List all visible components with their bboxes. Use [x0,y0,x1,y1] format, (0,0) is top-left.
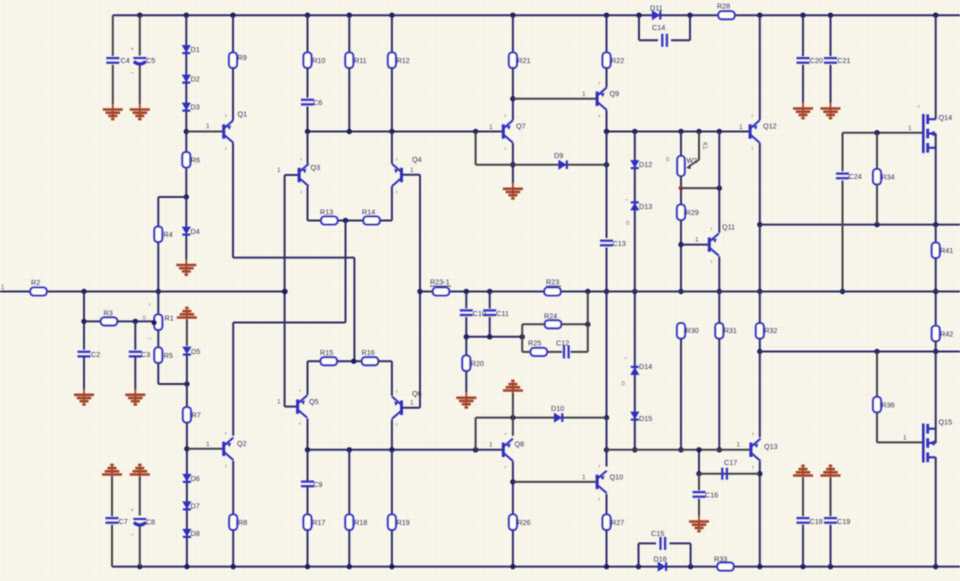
svg-text:R19: R19 [397,518,410,527]
svg-text:D15: D15 [639,414,652,423]
svg-text:R2: R2 [31,278,40,287]
svg-text:Q14: Q14 [939,113,953,122]
svg-text:C18: C18 [810,517,823,526]
svg-text:Q10: Q10 [610,473,624,482]
svg-text:D8: D8 [191,529,200,538]
svg-text:Q13: Q13 [764,442,778,451]
svg-text:R24: R24 [544,312,557,321]
svg-text:R18: R18 [354,518,367,527]
svg-text:R29: R29 [686,208,699,217]
svg-text:Q11: Q11 [722,223,735,232]
svg-text:R1: R1 [165,314,174,323]
svg-text:R14: R14 [362,208,375,217]
svg-text:D12: D12 [639,160,652,169]
svg-text:R32: R32 [764,326,777,335]
svg-text:−: − [148,336,152,343]
svg-text:+: + [131,47,135,53]
svg-text:1: 1 [695,237,699,244]
svg-text:1: 1 [206,441,210,448]
svg-text:Q3: Q3 [311,163,321,172]
svg-text:C15: C15 [651,529,664,538]
svg-text:C9: C9 [313,480,322,489]
svg-text:D16: D16 [654,555,667,564]
svg-text:1: 1 [489,442,493,449]
svg-text:Q5: Q5 [309,397,319,406]
svg-text:1: 1 [206,123,210,130]
svg-text:1: 1 [277,167,281,174]
svg-text:Q12: Q12 [763,122,777,131]
svg-text:R26: R26 [517,518,530,527]
svg-text:C8: C8 [146,518,155,527]
svg-text:R10: R10 [312,56,325,65]
svg-text:C5: C5 [146,56,155,65]
svg-text:R13: R13 [320,208,333,217]
svg-text:C19: C19 [837,517,850,526]
svg-text:K1: K1 [701,142,707,150]
svg-text:−: − [624,356,628,363]
svg-text:C13: C13 [613,239,626,248]
svg-text:D5: D5 [191,347,200,356]
svg-text:D10: D10 [551,404,564,413]
svg-text:1: 1 [908,125,912,132]
svg-text:C2: C2 [91,350,100,359]
svg-text:−: − [131,532,135,539]
svg-text:Q8: Q8 [515,440,525,449]
svg-text:C11: C11 [496,309,509,318]
svg-text:R31: R31 [724,326,737,335]
svg-text:R9: R9 [238,53,247,62]
svg-text:1: 1 [410,400,414,407]
svg-text:R15: R15 [320,348,333,357]
svg-text:R30: R30 [686,326,699,335]
svg-text:C7: C7 [119,517,128,526]
svg-text:R17: R17 [312,518,325,527]
svg-text:D3: D3 [191,103,200,112]
svg-text:D14: D14 [639,362,652,371]
svg-text:R42: R42 [940,330,953,339]
svg-text:Q2: Q2 [237,439,247,448]
svg-text:Q4: Q4 [412,155,422,164]
svg-text:R8: R8 [238,518,247,527]
svg-text:C20: C20 [810,56,823,65]
svg-text:C17: C17 [724,458,737,467]
svg-text:−: − [131,70,135,77]
svg-text:Q15: Q15 [939,418,953,427]
svg-text:C14: C14 [652,23,665,32]
svg-text:R41: R41 [940,246,953,255]
svg-text:D7: D7 [191,502,200,511]
svg-text:R21: R21 [517,56,530,65]
svg-text:R23: R23 [546,278,559,287]
svg-text:R36: R36 [881,401,894,410]
svg-text:R6: R6 [191,156,200,165]
svg-text:R33: R33 [714,555,727,564]
svg-text:D4: D4 [191,227,200,236]
svg-text:R25: R25 [528,339,541,348]
svg-text:R7: R7 [192,411,201,420]
svg-text:D2: D2 [191,75,200,84]
svg-text:C12: C12 [556,339,569,348]
svg-text:D11: D11 [650,4,663,13]
svg-text:1: 1 [739,124,743,131]
svg-text:1: 1 [582,91,586,98]
svg-text:1: 1 [582,474,586,481]
svg-text:Q7: Q7 [516,122,526,131]
svg-text:1: 1 [903,435,907,442]
svg-text:R5: R5 [164,351,173,360]
svg-text:1: 1 [410,167,414,174]
svg-text:C6: C6 [313,98,322,107]
svg-text:C3: C3 [141,350,150,359]
svg-text:R16: R16 [362,348,375,357]
svg-text:R34: R34 [881,173,894,182]
svg-text:R22: R22 [611,56,624,65]
svg-text:−: − [625,197,629,204]
svg-text:+: + [131,508,135,514]
svg-text:C16: C16 [705,491,718,500]
svg-text:1: 1 [489,124,493,131]
svg-text:C4: C4 [121,56,130,65]
svg-text:R3: R3 [104,309,113,318]
svg-text:D1: D1 [191,45,200,54]
svg-text:R11: R11 [354,56,367,65]
svg-text:R12: R12 [397,56,410,65]
svg-text:R20: R20 [471,359,484,368]
svg-text:C21: C21 [837,56,850,65]
svg-text:D13: D13 [639,202,652,211]
svg-text:Q9: Q9 [610,89,620,98]
svg-text:D9: D9 [554,151,563,160]
svg-text:Q6: Q6 [412,389,422,398]
svg-text:R4: R4 [164,230,173,239]
svg-text:C24: C24 [849,172,862,181]
svg-text:Q1: Q1 [238,110,248,119]
svg-text:R23-1: R23-1 [430,278,450,287]
svg-text:R28: R28 [717,2,730,11]
svg-text:1: 1 [277,399,281,406]
svg-text:D6: D6 [191,474,200,483]
svg-text:1: 1 [737,442,741,449]
svg-text:R27: R27 [611,518,624,527]
